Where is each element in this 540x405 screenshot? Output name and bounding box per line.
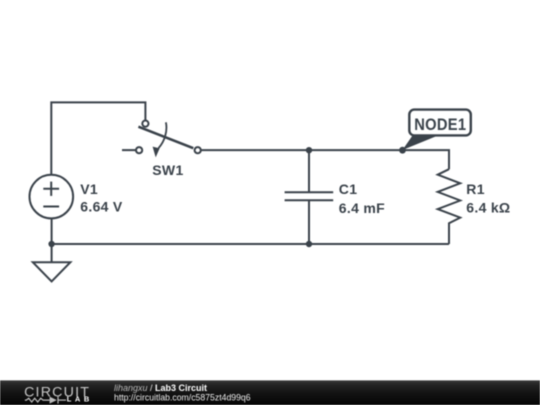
svg-text:6.4 kΩ: 6.4 kΩ	[466, 199, 510, 215]
svg-text:R1: R1	[466, 181, 485, 197]
svg-text:V1: V1	[80, 181, 98, 197]
svg-text:SW1: SW1	[152, 162, 183, 178]
svg-text:lihangxu / Lab3 Circuit: lihangxu / Lab3 Circuit	[114, 383, 207, 393]
svg-text:NODE1: NODE1	[414, 116, 466, 134]
svg-text:C1: C1	[339, 181, 358, 197]
svg-text:6.64 V: 6.64 V	[80, 199, 123, 215]
svg-text:6.4 mF: 6.4 mF	[339, 200, 385, 216]
svg-text:LAB: LAB	[67, 395, 90, 404]
svg-text:http://circuitlab.com/c5875zt4: http://circuitlab.com/c5875zt4d99q6	[114, 392, 251, 402]
